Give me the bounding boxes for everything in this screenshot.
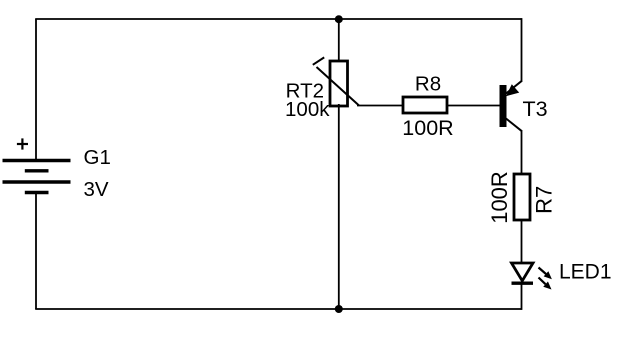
- svg-text:R8: R8: [415, 72, 441, 95]
- wire R7 to LED1: [521, 220, 523, 263]
- battery G1 plate long bottom: [3, 180, 71, 183]
- node top junction dot: [335, 15, 343, 23]
- battery G1 plate short bottom: [25, 191, 49, 194]
- wire bottom rail: [35, 308, 521, 310]
- svg-text:R7: R7: [532, 186, 557, 214]
- svg-text:LED1: LED1: [559, 261, 612, 284]
- svg-text:G1: G1: [84, 146, 111, 169]
- wire collector to R7: [521, 131, 523, 175]
- trimmer RT2 wiper end tick: [313, 57, 324, 64]
- transistor T3 emitter arrow (PNP): [506, 84, 519, 96]
- svg-text:100R: 100R: [402, 116, 453, 140]
- transistor T3 base bar: [500, 85, 507, 127]
- transistor T3 emitter diagonal: [506, 81, 522, 94]
- transistor T3 collector diagonal: [506, 119, 522, 132]
- wire middle vertical lower (RT2 to bottom rail): [338, 104, 340, 309]
- battery plus sign: [17, 138, 28, 149]
- resistor R7 body: [514, 174, 530, 220]
- wire LED1 to bottom rail: [521, 283, 523, 310]
- LED1 emission arrow 1: [539, 268, 552, 280]
- wire R8 to transistor base: [447, 105, 500, 107]
- resistor R8 body: [403, 97, 447, 113]
- node bottom junction dot: [335, 305, 343, 313]
- svg-text:100k: 100k: [285, 98, 330, 121]
- LED1 diode triangle: [512, 263, 534, 281]
- LED1 cathode bar: [512, 282, 534, 285]
- svg-text:3V: 3V: [84, 178, 109, 201]
- battery G1 plate long top: [3, 159, 71, 162]
- wire top rail: [35, 18, 521, 20]
- svg-text:T3: T3: [523, 97, 548, 121]
- trimmer RT2 wiper diagonal: [317, 67, 360, 106]
- wire wiper to R8: [357, 105, 403, 107]
- wire emitter to top rail: [521, 18, 523, 81]
- LED1 emission arrow 2: [539, 278, 552, 290]
- battery G1 plate short: [25, 169, 49, 172]
- wire middle vertical upper (top rail to RT2): [338, 19, 340, 63]
- svg-text:100R: 100R: [487, 171, 512, 224]
- wire left vertical (top rail to battery): [35, 19, 37, 160]
- wire left vertical (battery to bottom rail): [35, 193, 37, 310]
- trimmer RT2 body: [330, 61, 348, 106]
